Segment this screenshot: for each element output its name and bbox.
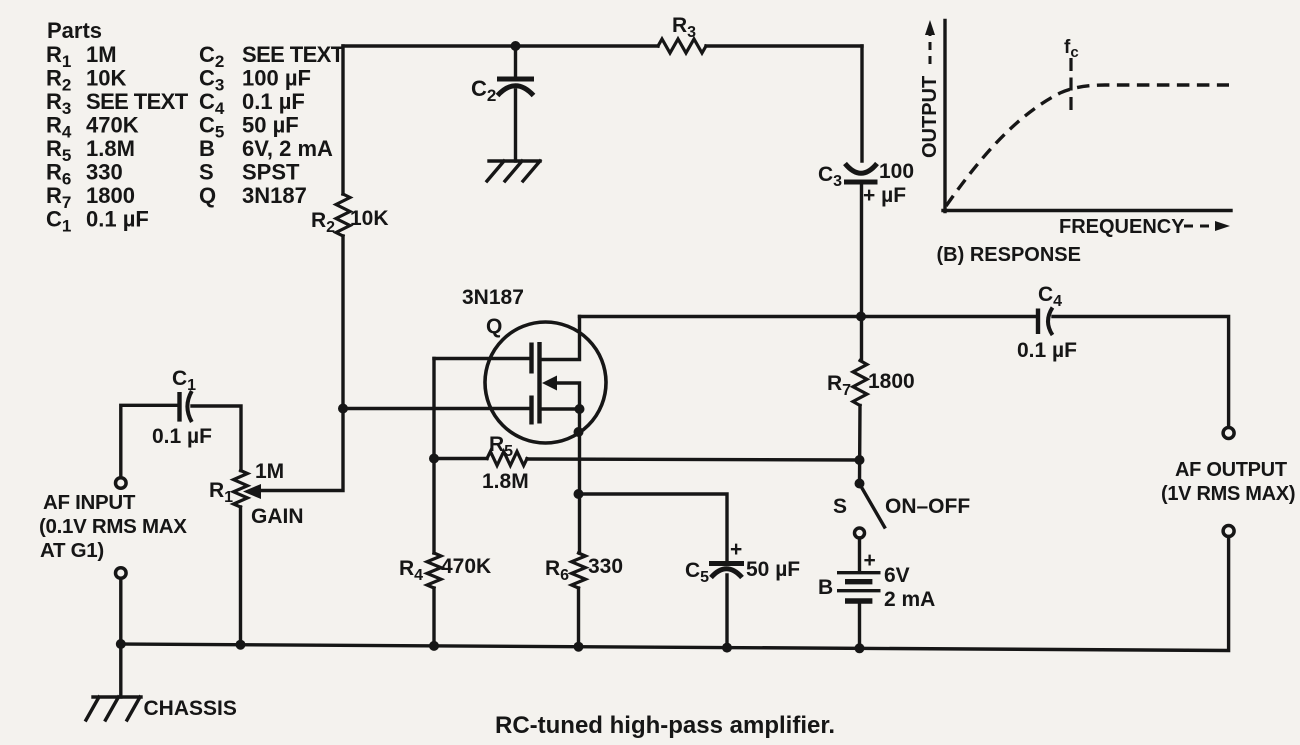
node top rail / C2 junction (511, 41, 521, 51)
wire R7 lower (858, 406, 862, 484)
svg-text:Q: Q (199, 183, 216, 208)
switch S lever (861, 486, 885, 528)
wire substrate lead (555, 383, 580, 410)
terminal AF input upper (116, 478, 127, 489)
svg-text:Q: Q (486, 315, 502, 338)
svg-text:S: S (833, 495, 847, 518)
capacitor C1 (177, 392, 181, 422)
wire switch to battery (858, 538, 861, 571)
svg-text:B: B (199, 136, 215, 161)
wire R6 lower (577, 588, 580, 647)
svg-text:0.1 µF: 0.1 µF (1017, 339, 1077, 362)
wire C2 stem lower (514, 90, 517, 161)
svg-text:+: + (864, 549, 876, 572)
graph y-axis (943, 21, 946, 212)
potentiometer R1 (234, 471, 248, 508)
wire R1 lower (239, 507, 242, 645)
node rail R1 (236, 640, 246, 650)
svg-text:470K: 470K (86, 113, 139, 138)
svg-text:2 mA: 2 mA (884, 588, 935, 611)
svg-text:FREQUENCY: FREQUENCY (1059, 216, 1185, 238)
svg-text:1800: 1800 (86, 183, 135, 208)
node rail left end (116, 639, 126, 649)
node drain / R7 crossing (856, 312, 866, 322)
capacitor C4 (1036, 309, 1040, 335)
svg-text:RC-tuned high-pass amplifier.: RC-tuned high-pass amplifier. (495, 712, 835, 739)
wire C5 lower (725, 575, 728, 648)
node R5 left (429, 454, 439, 464)
resistor R7 (853, 361, 867, 406)
svg-text:ON–OFF: ON–OFF (885, 495, 970, 518)
svg-text:SEE TEXT: SEE TEXT (242, 42, 345, 67)
node rail C5 (722, 643, 732, 653)
svg-text:(1V RMS MAX): (1V RMS MAX) (1161, 483, 1295, 505)
wire C4 to output (1053, 317, 1229, 428)
svg-text:10K: 10K (86, 66, 126, 91)
node circle crossing (574, 427, 584, 437)
wire R4 lower (432, 588, 435, 646)
wire input to C1 (121, 405, 177, 477)
resistor R4 (427, 553, 441, 588)
wire gate1 vertical (432, 359, 435, 554)
svg-text:1.8M: 1.8M (482, 470, 529, 493)
transistor gate bar 2 (529, 396, 533, 425)
node R5 right (855, 455, 865, 465)
transistor gate bar 1 (529, 343, 533, 374)
svg-text:10K: 10K (350, 207, 389, 230)
resistor R3 (658, 39, 706, 53)
svg-text:1.8M: 1.8M (86, 136, 135, 161)
transistor channel bar (537, 342, 541, 424)
node rail R4 (429, 641, 439, 651)
resistor R6 (572, 553, 586, 588)
svg-text:AF INPUT: AF INPUT (43, 491, 136, 514)
svg-text:(B) RESPONSE: (B) RESPONSE (937, 244, 1081, 266)
svg-text:B: B (818, 576, 833, 599)
svg-text:(0.1V RMS MAX: (0.1V RMS MAX (39, 515, 187, 538)
wire rail to chassis (119, 644, 122, 697)
graph x-axis (943, 209, 1231, 212)
graph response curve (946, 85, 1229, 206)
node source junction (575, 404, 585, 414)
wire top rail right segment (706, 44, 862, 47)
wire source vertical (578, 409, 581, 553)
transistor Q circle (485, 322, 606, 443)
svg-text:3N187: 3N187 (242, 183, 307, 208)
svg-text:50 µF: 50 µF (242, 113, 299, 138)
wire drain rail to C4 (580, 315, 1037, 318)
terminal AF input lower (116, 568, 127, 579)
wire drain tap (541, 317, 580, 360)
svg-text:470K: 470K (441, 555, 491, 578)
svg-text:SPST: SPST (242, 160, 300, 185)
resistor R2 (336, 194, 350, 236)
wire C2 stem upper (514, 46, 517, 77)
svg-text:1M: 1M (255, 460, 284, 483)
capacitor C2 (497, 77, 534, 82)
wire R5 line left stub (434, 457, 487, 460)
wire C3/R7 vertical top (860, 46, 863, 161)
wire gate 2 lead (343, 407, 529, 410)
svg-text:+: + (730, 538, 742, 561)
wire top rail left segment (343, 44, 658, 47)
svg-text:GAIN: GAIN (251, 505, 304, 528)
transistor substrate arrow (542, 376, 557, 391)
wire C5 branch horizontal (579, 494, 728, 562)
svg-text:+ µF: + µF (863, 184, 906, 207)
svg-text:3N187: 3N187 (462, 286, 524, 309)
wiper arrowhead into R1 (243, 484, 261, 499)
svg-text:100 µF: 100 µF (242, 66, 311, 91)
ground under C2 (487, 161, 540, 181)
capacitor C5 (709, 561, 744, 566)
svg-text:SEE TEXT: SEE TEXT (86, 89, 189, 114)
svg-text:0.1 µF: 0.1 µF (242, 89, 305, 114)
svg-text:AF OUTPUT: AF OUTPUT (1175, 459, 1287, 481)
wire C3 to drain rail (860, 182, 863, 361)
svg-text:AT G1): AT G1) (40, 539, 104, 562)
svg-text:0.1 µF: 0.1 µF (86, 207, 149, 232)
wire input lower to rail (119, 578, 122, 644)
switch S pivot node (855, 479, 865, 489)
svg-text:1M: 1M (86, 42, 117, 67)
svg-text:6V: 6V (884, 564, 910, 587)
svg-text:100: 100 (879, 160, 914, 183)
resistor R5 (487, 452, 527, 466)
wire gate 1 lead (434, 357, 529, 360)
svg-text:0.1 µF: 0.1 µF (152, 425, 212, 448)
wire R5 line right (527, 459, 860, 460)
svg-text:50 µF: 50 µF (746, 558, 800, 581)
svg-text:S: S (199, 160, 214, 185)
wire source tap (541, 407, 580, 410)
wire C1 to R1 (192, 406, 241, 471)
svg-text:CHASSIS: CHASSIS (144, 697, 237, 720)
graph fc dashed line (1069, 58, 1072, 110)
svg-text:1800: 1800 (868, 370, 915, 393)
svg-text:OUTPUT: OUTPUT (919, 76, 941, 158)
terminal AF output lower (1223, 526, 1234, 537)
node rail R6 (574, 642, 584, 652)
svg-text:330: 330 (588, 555, 623, 578)
svg-text:Parts: Parts (47, 18, 102, 43)
node C5 branch (574, 489, 584, 499)
svg-text:6V, 2 mA: 6V, 2 mA (242, 136, 333, 161)
graph frequency dashed arrow (1184, 225, 1216, 228)
chassis ground (86, 697, 141, 720)
terminal AF output upper (1223, 428, 1234, 439)
wire R2 vertical lower (258, 236, 343, 491)
node gate2 branch (338, 404, 348, 414)
battery B plates (837, 571, 881, 574)
wire battery lower (858, 601, 861, 649)
switch S terminal (855, 528, 865, 538)
graph OUTPUT dashed arrow (929, 34, 932, 64)
wire output lower vertical + bottom rail (121, 537, 1229, 651)
svg-text:330: 330 (86, 160, 123, 185)
capacitor C3 (845, 164, 877, 174)
node rail battery (855, 643, 865, 653)
wire R2 vertical upper (341, 46, 344, 194)
